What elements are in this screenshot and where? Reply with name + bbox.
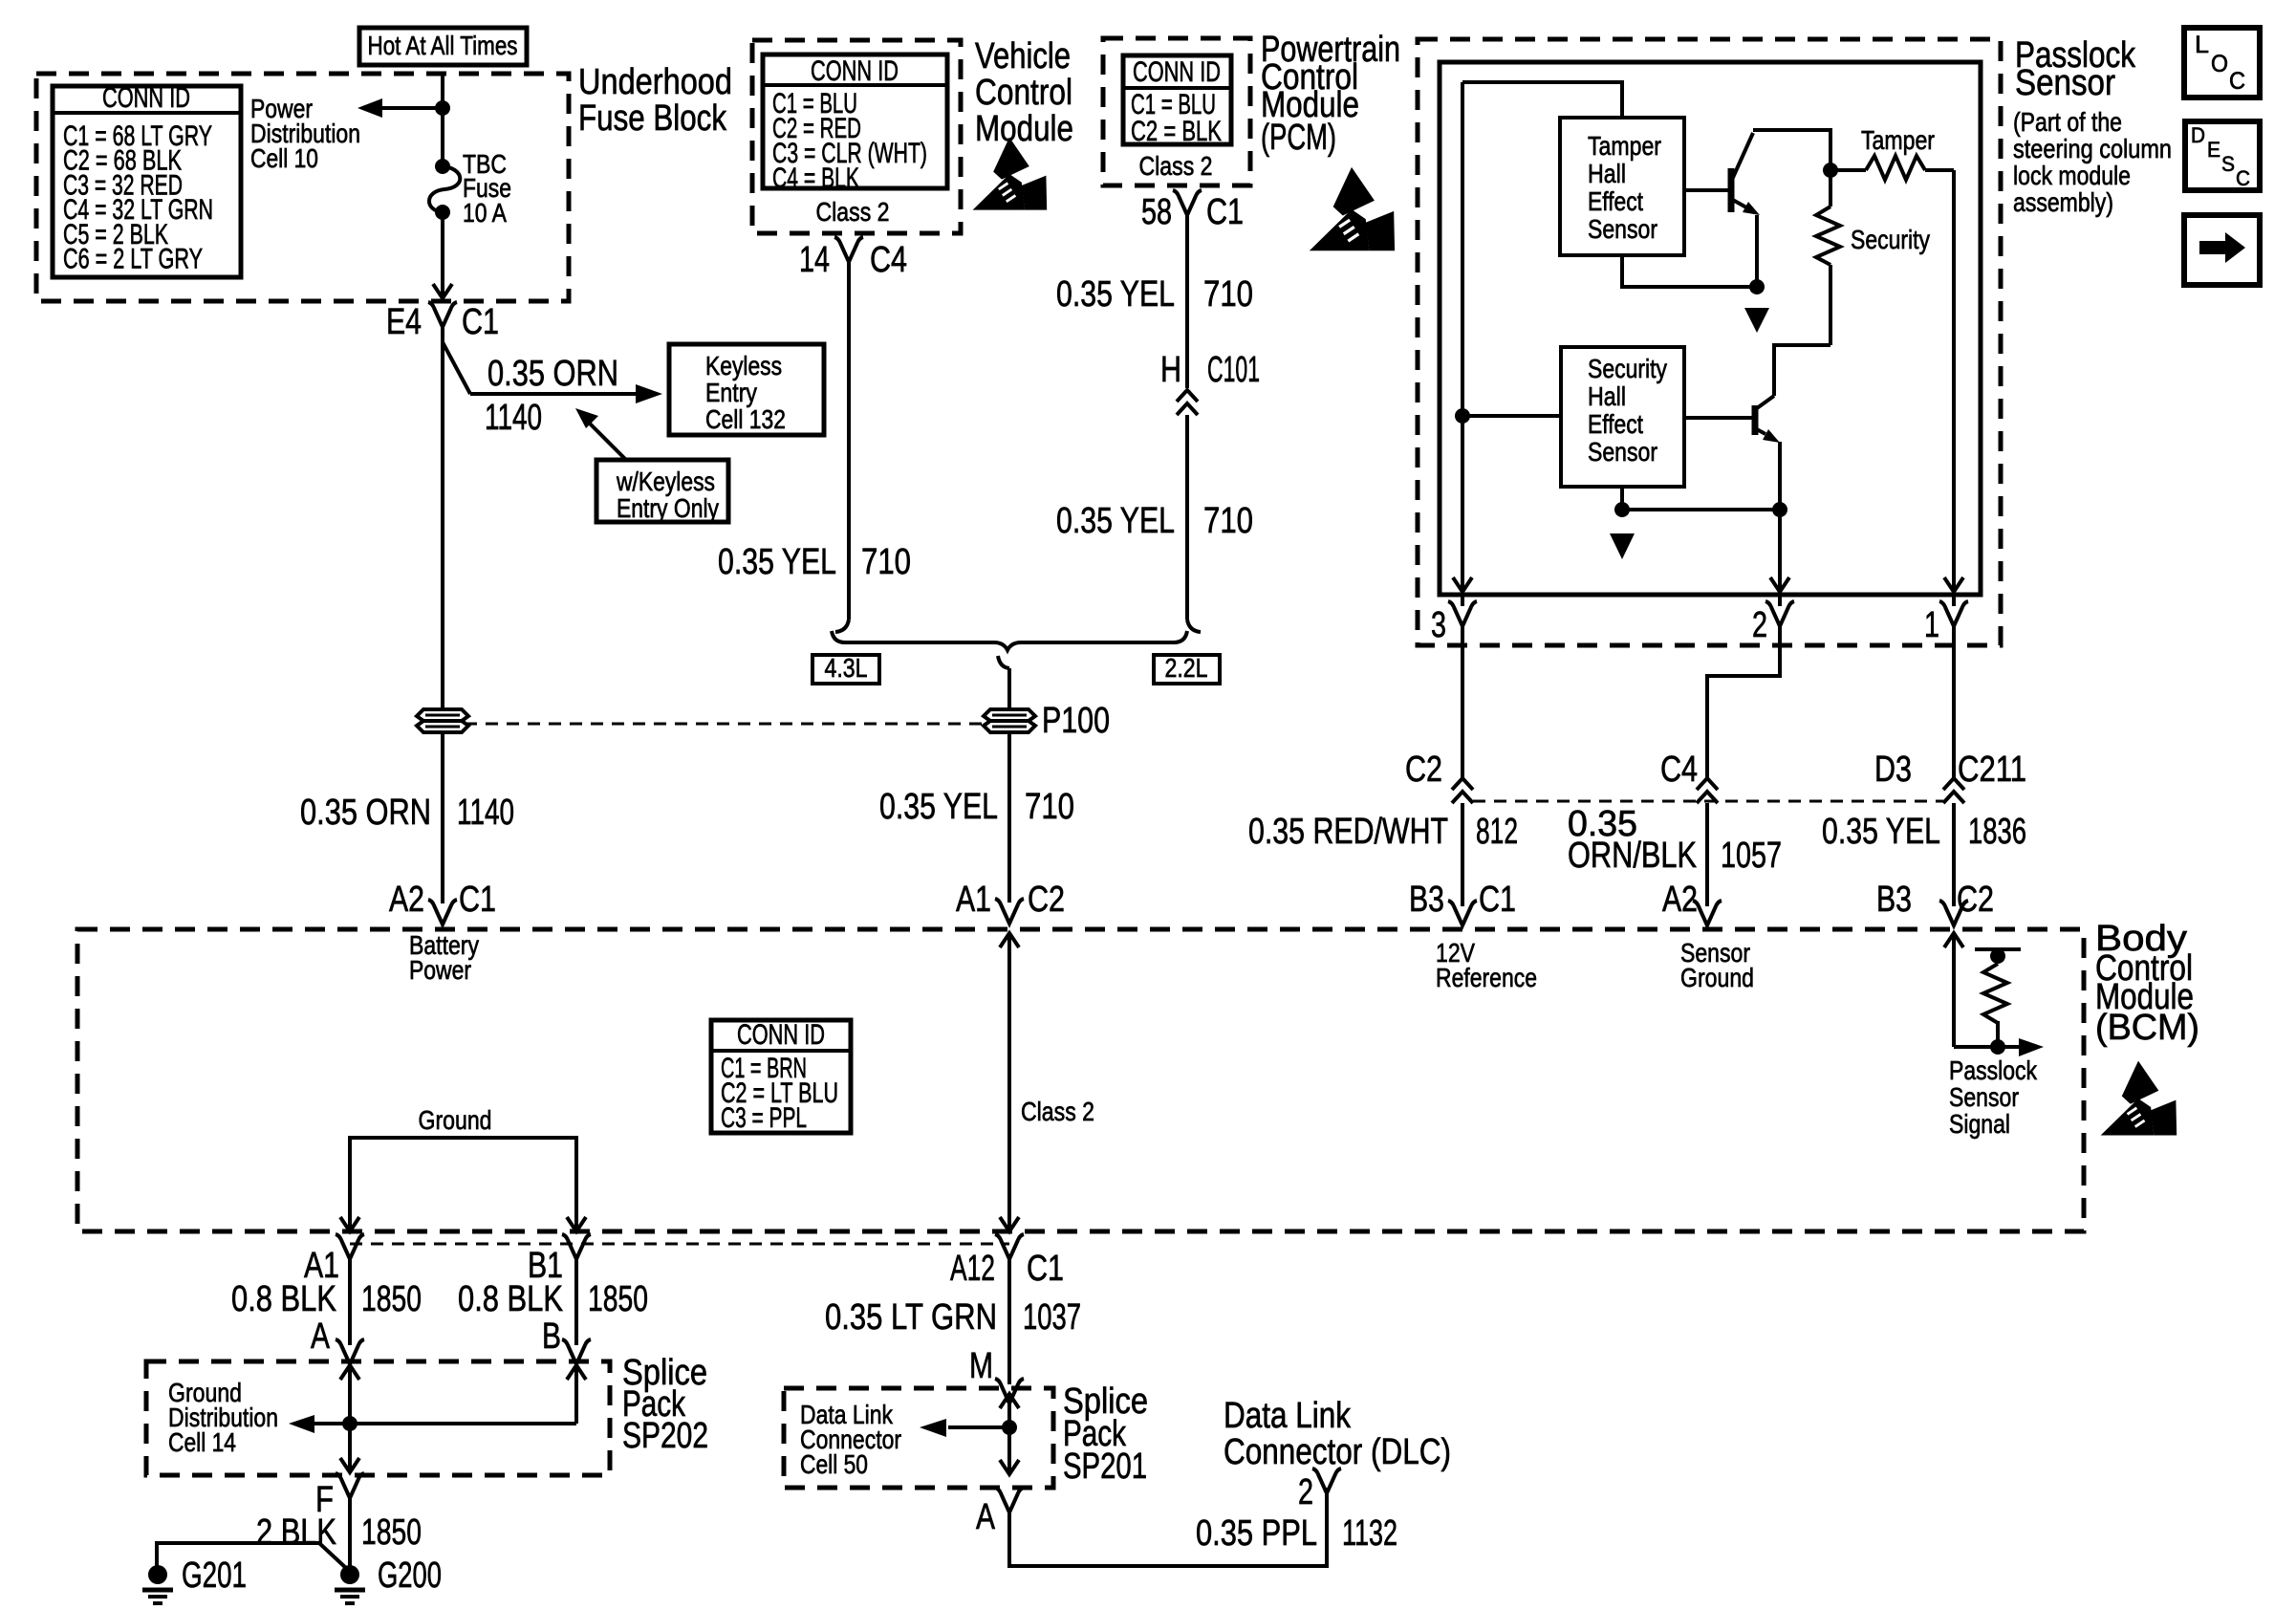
svg-text:Class 2: Class 2: [1021, 1097, 1094, 1126]
svg-text:B3: B3: [1876, 880, 1912, 920]
svg-text:Connector (DLC): Connector (DLC): [1224, 1432, 1451, 1472]
svg-text:steering column: steering column: [2013, 134, 2172, 163]
svg-text:0.35 ORN: 0.35 ORN: [487, 354, 618, 394]
svg-text:0.35 ORN: 0.35 ORN: [300, 793, 431, 833]
svg-text:0.8 BLK: 0.8 BLK: [458, 1279, 563, 1319]
svg-text:1140: 1140: [485, 398, 542, 438]
svg-text:C4 = BLK: C4 = BLK: [772, 163, 859, 194]
svg-text:Cell 132: Cell 132: [705, 404, 786, 434]
svg-text:(PCM): (PCM): [1261, 118, 1336, 158]
svg-text:A2: A2: [1662, 880, 1698, 920]
svg-text:2: 2: [1752, 605, 1767, 645]
svg-text:1850: 1850: [361, 1512, 422, 1553]
svg-text:C1: C1: [1206, 192, 1244, 232]
svg-text:SP202: SP202: [622, 1416, 708, 1456]
svg-text:A: A: [976, 1497, 996, 1537]
svg-text:Security: Security: [1851, 225, 1930, 254]
svg-text:Class 2: Class 2: [1139, 151, 1213, 181]
svg-text:58: 58: [1141, 192, 1172, 232]
svg-text:E4: E4: [386, 302, 422, 342]
svg-text:Cell 50: Cell 50: [800, 1449, 868, 1479]
svg-text:CONN ID: CONN ID: [737, 1019, 825, 1051]
svg-text:D: D: [2191, 123, 2205, 147]
svg-text:Sensor: Sensor: [1949, 1082, 2019, 1112]
svg-text:lock module: lock module: [2013, 161, 2131, 190]
svg-text:0.35 YEL: 0.35 YEL: [879, 787, 998, 827]
svg-text:Signal: Signal: [1949, 1109, 2010, 1139]
svg-text:A2: A2: [389, 880, 424, 920]
svg-text:1850: 1850: [588, 1279, 648, 1319]
svg-text:710: 710: [861, 542, 911, 582]
svg-text:Security: Security: [1588, 354, 1667, 383]
svg-text:Cell 14: Cell 14: [168, 1427, 236, 1457]
svg-text:0.35 YEL: 0.35 YEL: [1056, 274, 1175, 315]
svg-text:Ground: Ground: [419, 1105, 492, 1135]
svg-text:G201: G201: [182, 1556, 247, 1596]
svg-text:Tamper: Tamper: [1588, 131, 1661, 161]
svg-text:ORN/BLK: ORN/BLK: [1568, 836, 1697, 876]
svg-text:Passlock: Passlock: [1949, 1055, 2038, 1085]
svg-text:Power: Power: [409, 955, 471, 985]
svg-text:0.35 YEL: 0.35 YEL: [1822, 812, 1940, 852]
svg-text:Sensor: Sensor: [1588, 214, 1657, 244]
svg-text:C2: C2: [1028, 880, 1065, 920]
svg-text:0.35 LT GRN: 0.35 LT GRN: [825, 1297, 997, 1338]
svg-text:812: 812: [1476, 812, 1518, 852]
svg-text:B3: B3: [1409, 880, 1444, 920]
svg-text:Hall: Hall: [1588, 159, 1626, 188]
svg-text:Entry Only: Entry Only: [617, 493, 719, 523]
svg-text:0.8 BLK: 0.8 BLK: [231, 1279, 336, 1319]
svg-text:10 A: 10 A: [463, 198, 507, 228]
svg-text:A1: A1: [956, 880, 991, 920]
svg-text:710: 710: [1025, 787, 1074, 827]
svg-text:1037: 1037: [1023, 1297, 1081, 1338]
svg-text:(BCM): (BCM): [2095, 1008, 2199, 1048]
svg-text:A: A: [311, 1316, 331, 1357]
svg-text:C211: C211: [1958, 750, 2026, 790]
svg-text:Underhood: Underhood: [578, 62, 732, 102]
svg-text:L: L: [2195, 32, 2209, 58]
svg-text:1132: 1132: [1342, 1513, 1397, 1554]
svg-text:C101: C101: [1207, 350, 1260, 390]
svg-text:1836: 1836: [1968, 812, 2026, 852]
svg-text:P100: P100: [1042, 701, 1110, 741]
svg-text:CONN ID: CONN ID: [102, 82, 190, 114]
svg-text:C1: C1: [1027, 1249, 1064, 1289]
svg-text:Cell 10: Cell 10: [250, 143, 318, 173]
svg-text:Keyless: Keyless: [705, 351, 782, 381]
svg-text:0.35 RED/WHT: 0.35 RED/WHT: [1248, 812, 1448, 852]
svg-text:Tamper: Tamper: [1861, 125, 1935, 155]
svg-text:SP201: SP201: [1063, 1447, 1147, 1487]
svg-text:Effect: Effect: [1588, 409, 1643, 439]
svg-text:2.2L: 2.2L: [1165, 653, 1208, 683]
svg-text:Sensor: Sensor: [2015, 63, 2115, 103]
svg-text:(Part of the: (Part of the: [2013, 107, 2122, 137]
svg-text:710: 710: [1203, 501, 1253, 541]
svg-text:Control: Control: [975, 73, 1072, 113]
svg-text:0.35 PPL: 0.35 PPL: [1196, 1513, 1317, 1554]
svg-text:Hot At All Times: Hot At All Times: [368, 31, 518, 60]
svg-text:Data Link: Data Link: [1224, 1396, 1352, 1436]
svg-text:Reference: Reference: [1436, 963, 1537, 992]
svg-text:0.35 YEL: 0.35 YEL: [1056, 501, 1175, 541]
svg-text:C4: C4: [1660, 750, 1698, 790]
svg-text:D3: D3: [1874, 750, 1912, 790]
svg-text:C1: C1: [1479, 880, 1516, 920]
svg-text:C4: C4: [870, 240, 907, 280]
svg-text:C3 = PPL: C3 = PPL: [721, 1102, 807, 1134]
svg-text:C1: C1: [459, 880, 496, 920]
svg-text:Module: Module: [975, 109, 1073, 149]
svg-text:assembly): assembly): [2013, 187, 2113, 217]
svg-text:1: 1: [1924, 605, 1939, 645]
svg-text:Class 2: Class 2: [816, 197, 890, 227]
svg-text:Entry: Entry: [705, 378, 757, 407]
svg-text:Fuse Block: Fuse Block: [578, 98, 727, 139]
svg-text:C2: C2: [1957, 880, 1994, 920]
svg-text:C1: C1: [462, 302, 499, 342]
svg-text:Vehicle: Vehicle: [975, 36, 1071, 76]
svg-text:G200: G200: [378, 1556, 442, 1596]
svg-text:C: C: [2229, 68, 2245, 95]
svg-text:Hall: Hall: [1588, 381, 1626, 411]
svg-text:CONN ID: CONN ID: [1133, 56, 1221, 88]
svg-text:Sensor: Sensor: [1588, 437, 1657, 467]
svg-text:H: H: [1160, 350, 1181, 390]
svg-text:3: 3: [1431, 605, 1446, 645]
svg-text:CONN ID: CONN ID: [811, 55, 899, 87]
svg-text:Ground: Ground: [1680, 963, 1754, 992]
svg-text:M: M: [969, 1346, 993, 1386]
svg-text:14: 14: [799, 240, 830, 280]
svg-text:w/Keyless: w/Keyless: [616, 467, 715, 496]
svg-text:1850: 1850: [361, 1279, 422, 1319]
svg-text:0.35 YEL: 0.35 YEL: [718, 542, 836, 582]
svg-text:E: E: [2207, 138, 2220, 162]
svg-text:2: 2: [1298, 1472, 1313, 1512]
svg-text:B: B: [542, 1316, 561, 1357]
svg-text:C2: C2: [1405, 750, 1442, 790]
svg-text:710: 710: [1203, 274, 1253, 315]
svg-text:O: O: [2211, 51, 2228, 77]
svg-text:A12: A12: [950, 1249, 995, 1289]
svg-text:1057: 1057: [1721, 836, 1782, 876]
svg-text:C2 = BLK: C2 = BLK: [1131, 116, 1222, 147]
svg-text:C6 = 2 LT GRY: C6 = 2 LT GRY: [63, 244, 203, 275]
svg-text:4.3L: 4.3L: [825, 653, 868, 683]
svg-text:C: C: [2236, 166, 2250, 190]
svg-text:1140: 1140: [457, 793, 514, 833]
svg-text:S: S: [2221, 152, 2235, 176]
svg-text:Effect: Effect: [1588, 186, 1643, 216]
